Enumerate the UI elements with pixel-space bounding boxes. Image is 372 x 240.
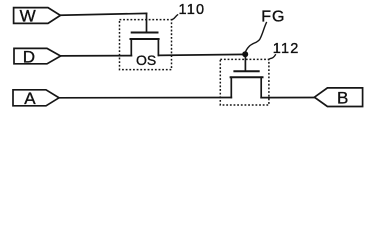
svg-text:A: A	[24, 89, 36, 108]
svg-text:112: 112	[273, 41, 300, 57]
svg-text:OS: OS	[136, 52, 156, 68]
svg-text:110: 110	[179, 2, 206, 18]
svg-text:FG: FG	[261, 8, 285, 25]
svg-text:B: B	[337, 89, 348, 108]
svg-text:W: W	[20, 7, 36, 26]
svg-text:D: D	[23, 47, 35, 66]
